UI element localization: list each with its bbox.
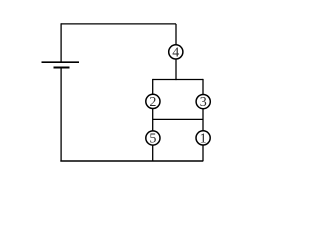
wire: right branch from lamp 3 to lamp 1 xyxy=(202,109,204,131)
wire: middle bar between branches xyxy=(153,118,203,120)
wire: right branch from lamp 1 to bottom rail xyxy=(202,145,204,161)
lamp 4 xyxy=(169,45,183,59)
wire: left branch down to lamp 2 xyxy=(152,79,154,95)
wire: left branch from lamp 5 to bottom rail xyxy=(152,145,154,161)
wire: right vertical from top rail to lamp 4 xyxy=(175,24,177,45)
wire: from lamp 4 down to splitter bar xyxy=(175,59,177,80)
wire: top horizontal from left branch to lamp-4 branch xyxy=(61,23,176,25)
battery B1 positive (long) plate xyxy=(42,61,80,63)
wire: left branch from lamp 2 to lamp 5 xyxy=(152,109,154,132)
lamp 3 xyxy=(196,95,210,109)
svg-text:4: 4 xyxy=(172,45,179,60)
wire: bottom rail xyxy=(60,160,203,162)
svg-text:1: 1 xyxy=(200,131,207,146)
wire: left vertical down to battery positive plate xyxy=(60,23,62,62)
wire: left vertical from battery negative plate to bottom rail xyxy=(60,68,62,162)
lamp 5 xyxy=(146,131,160,145)
battery B1 negative (short) plate xyxy=(54,67,70,69)
wire: splitter bar between branch 2 and branch 3 xyxy=(153,79,203,81)
lamp 2 xyxy=(146,94,160,108)
wire: right branch down to lamp 3 xyxy=(202,79,204,95)
svg-text:3: 3 xyxy=(200,95,207,110)
svg-text:2: 2 xyxy=(149,95,156,110)
svg-text:5: 5 xyxy=(149,131,156,146)
lamp 1 xyxy=(196,131,210,145)
